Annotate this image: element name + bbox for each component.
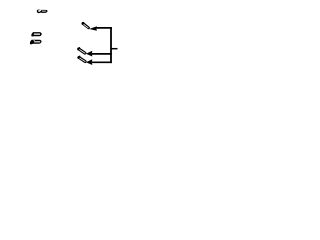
label e3 [30, 40, 42, 45]
tail strokes: top arrow double diagonal [82, 23, 88, 28]
wire: top arrow shaft [96, 27, 112, 29]
wire: bottom arrow shaft [92, 61, 112, 63]
arrowhead: bottom arrow [86, 59, 92, 65]
wire: vertical bus [110, 27, 112, 63]
arrowhead: top arrow [89, 26, 97, 30]
arrowhead: middle arrow [86, 51, 92, 57]
tail strokes: bottom arrow double diagonal [78, 56, 85, 62]
label e1 [37, 9, 48, 13]
label e2 [31, 32, 41, 36]
wire: right stub [111, 48, 118, 50]
wire: middle arrow shaft [92, 53, 112, 55]
tail strokes: middle arrow double diagonal [78, 48, 85, 54]
